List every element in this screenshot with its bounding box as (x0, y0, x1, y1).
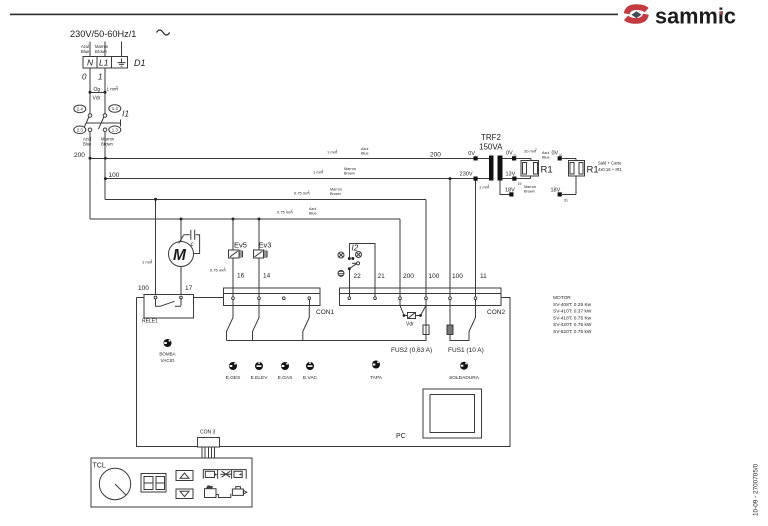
svg-text:MOTOR: MOTOR (553, 295, 571, 301)
svg-text:Blue: Blue (309, 212, 317, 216)
svg-text:16: 16 (237, 273, 245, 280)
svg-text:2.4: 2.4 (77, 107, 84, 112)
svg-text:Blue: Blue (361, 152, 369, 156)
svg-text:0V: 0V (468, 151, 475, 157)
svg-text:R1: R1 (541, 165, 553, 176)
svg-text:TRF2: TRF2 (481, 133, 502, 142)
svg-text:E.VAC: E.VAC (303, 375, 318, 381)
svg-text:FUS2 (0,63 A): FUS2 (0,63 A) (391, 347, 432, 354)
svg-text:RELE1: RELE1 (142, 319, 158, 325)
svg-text:SV-520T: 0.75 kW: SV-520T: 0.75 kW (553, 329, 592, 335)
svg-text:4x0.16 + IR1: 4x0.16 + IR1 (598, 167, 623, 172)
svg-text:22: 22 (354, 273, 362, 280)
svg-text:Brown: Brown (524, 190, 535, 194)
svg-text:Ev3: Ev3 (259, 241, 272, 250)
svg-text:D1: D1 (134, 58, 146, 68)
svg-text:2: 2 (535, 148, 537, 152)
svg-text:VACIO: VACIO (161, 358, 175, 363)
svg-text:10-09 - 2700705/0: 10-09 - 2700705/0 (753, 463, 760, 516)
svg-text:E.GAS: E.GAS (278, 375, 293, 381)
svg-text:sammic: sammic (655, 4, 736, 29)
svg-text:Azul: Azul (361, 147, 369, 151)
svg-text:18V: 18V (505, 187, 515, 193)
svg-text:PC: PC (396, 433, 406, 440)
svg-text:230V/50-60Hz/1: 230V/50-60Hz/1 (70, 29, 136, 39)
svg-text:Vdr: Vdr (406, 322, 414, 328)
svg-text:Ev5: Ev5 (234, 241, 247, 250)
svg-text:200: 200 (430, 152, 441, 159)
svg-text:c: c (191, 242, 194, 248)
svg-text:100: 100 (429, 273, 440, 280)
svg-text:13V: 13V (506, 172, 516, 178)
svg-text:TAPA: TAPA (370, 375, 383, 381)
svg-text:FUS1 (10 A): FUS1 (10 A) (448, 347, 484, 354)
svg-text:Azul: Azul (309, 207, 317, 211)
svg-text:CON1: CON1 (316, 309, 334, 316)
svg-text:17: 17 (185, 285, 193, 292)
svg-text:Blue: Blue (81, 49, 90, 54)
svg-text:2: 2 (336, 149, 338, 153)
svg-text:21: 21 (378, 273, 386, 280)
svg-text:2: 2 (116, 86, 118, 90)
svg-text:11: 11 (480, 273, 487, 280)
svg-text:1.4: 1.4 (112, 106, 119, 111)
svg-text:Blue: Blue (542, 156, 550, 160)
svg-text:m: m (559, 154, 562, 158)
svg-text:SV-410T: 0.37 kW: SV-410T: 0.37 kW (553, 309, 592, 315)
svg-text:E.ELEV: E.ELEV (251, 375, 269, 381)
svg-text:I1: I1 (122, 109, 129, 119)
svg-text:100: 100 (109, 172, 120, 179)
svg-text:L1: L1 (99, 58, 109, 68)
svg-text:2.3: 2.3 (77, 128, 84, 133)
svg-text:2: 2 (151, 259, 153, 263)
svg-text:BOMBA: BOMBA (159, 352, 175, 357)
svg-text:100: 100 (452, 273, 463, 280)
svg-text:Marron: Marron (330, 188, 342, 192)
svg-text:19: 19 (518, 182, 522, 186)
svg-text:Marron: Marron (344, 167, 356, 171)
svg-text:Brown: Brown (330, 192, 341, 196)
svg-text:SV-408T: 0.25 Kw: SV-408T: 0.25 Kw (553, 302, 592, 308)
svg-text:1.3: 1.3 (112, 128, 119, 133)
svg-text:0: 0 (82, 73, 87, 82)
svg-text:TCL: TCL (93, 463, 106, 470)
svg-text:Vdr: Vdr (93, 96, 101, 102)
svg-text:100: 100 (138, 285, 149, 292)
svg-text:Sald + Carte: Sald + Carte (598, 161, 622, 166)
svg-text:SV-418T: 0.75 Kw: SV-418T: 0.75 Kw (553, 315, 592, 321)
svg-text:CON2: CON2 (487, 309, 505, 316)
svg-text:m: m (514, 154, 517, 158)
svg-text:Og: Og (94, 87, 101, 93)
svg-text:2: 2 (322, 169, 324, 173)
svg-text:18V: 18V (551, 187, 561, 193)
svg-text:200: 200 (74, 152, 85, 159)
svg-text:Blue: Blue (83, 141, 92, 146)
svg-text:CON 3: CON 3 (200, 430, 216, 436)
svg-text:230V: 230V (460, 172, 473, 178)
svg-text:SV-420T: 0.75 kW: SV-420T: 0.75 kW (553, 322, 592, 328)
svg-text:E.GES: E.GES (226, 375, 241, 381)
svg-text:0V: 0V (552, 151, 559, 157)
svg-text:150VA: 150VA (479, 143, 503, 152)
svg-text:14: 14 (263, 273, 271, 280)
svg-text:Brown: Brown (344, 172, 355, 176)
svg-text:Azul: Azul (542, 151, 550, 155)
svg-text:Brown: Brown (101, 141, 114, 146)
svg-text:Brown: Brown (95, 49, 108, 54)
svg-text:R1: R1 (587, 165, 599, 176)
svg-text:0V: 0V (506, 151, 513, 157)
svg-text:31: 31 (564, 199, 568, 203)
svg-text:1: 1 (98, 73, 102, 82)
svg-text:SOLDADURA: SOLDADURA (449, 375, 480, 381)
svg-text:2: 2 (488, 184, 490, 188)
svg-text:Marron: Marron (524, 185, 536, 189)
svg-text:M: M (173, 247, 187, 264)
svg-text:N: N (87, 58, 94, 68)
svg-text:200: 200 (403, 273, 414, 280)
